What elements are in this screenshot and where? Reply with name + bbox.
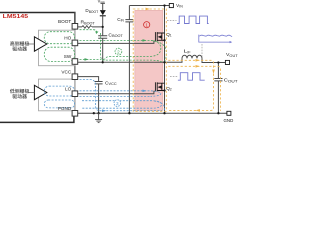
VCC wire: [78, 77, 99, 82]
diode DBOOT: [100, 10, 106, 15]
ground symbol left: [95, 113, 102, 122]
resistor RBOOT: [82, 26, 92, 29]
pin HO: [72, 40, 78, 46]
svg-text:VCC: VCC: [61, 69, 72, 74]
junction dot: CIN ground node: [128, 112, 130, 114]
pin VCC: [72, 74, 78, 80]
svg-text:CBOOT: CBOOT: [108, 32, 122, 38]
svg-text:2: 2: [117, 49, 120, 54]
green arrow on HO corridor: [143, 39, 147, 42]
green gate loop: vertical along CBOOT: [101, 33, 163, 62]
junction dot: PGND return node: [93, 112, 95, 114]
green gate loop: HO corridor segment: [80, 40, 161, 59]
green arrow on SW corridor: [85, 58, 89, 61]
svg-text:DBOOT: DBOOT: [85, 8, 98, 14]
svg-text:RBOOT: RBOOT: [81, 20, 95, 26]
pin SW: [72, 59, 78, 65]
PGND bottom wire: [78, 112, 227, 114]
blue gate loop: bottom return along PGND wire: [100, 110, 163, 112]
junction dot: Q2 drain node: [163, 89, 165, 91]
IC outline bottom edge: [0, 117, 74, 123]
Q1/Q2 drain-source column: [164, 6, 166, 114]
svg-text:1: 1: [145, 23, 148, 28]
green gate loop: in-box racetrack around SW: [44, 47, 74, 61]
IC pin column line: [74, 12, 76, 113]
junction dot: Q2 source ground node: [163, 112, 165, 114]
blue gate loop: VCC entry curve and vertical along CVCC: [80, 79, 100, 110]
svg-text:CIN: CIN: [117, 17, 124, 23]
junction dot: Q1 source node: [163, 39, 165, 41]
blue gate loop: LO corridor segment: [80, 91, 161, 97]
orange output loop lower segment: [168, 66, 220, 111]
svg-text:CVCC: CVCC: [105, 80, 117, 86]
CVCC branch wire: [98, 84, 100, 113]
svg-text:PGND: PGND: [58, 106, 72, 111]
green gate loop: BOOT segment with curl to CBOOT: [80, 30, 98, 33]
VIN terminal: [169, 4, 173, 8]
green gate loop: in-box racetrack around HO: [44, 32, 74, 44]
orange arrow top: [146, 8, 150, 11]
svg-text:VOUT: VOUT: [226, 52, 238, 58]
waveform leader 2: [170, 75, 178, 77]
CBOOT branch wire: [102, 27, 104, 62]
svg-text:3: 3: [116, 101, 119, 106]
blue gate loop: lower corridor racetrack through circle 3: [82, 101, 162, 109]
svg-text:BOOT: BOOT: [58, 19, 71, 24]
circled number 1: [144, 22, 150, 28]
svg-text:LM5145: LM5145: [3, 14, 28, 20]
SW node square waveform top: [177, 16, 209, 23]
LO wire: [78, 91, 156, 93]
low-side driver box: [39, 79, 75, 111]
orange power loop around hot loop box: [133, 9, 166, 111]
VOUT ripple waveform axis: [199, 35, 230, 43]
capacitor CBOOT: [98, 36, 107, 39]
blue arrow on bottom return: [102, 109, 106, 112]
capacitor COUT: [214, 79, 222, 81]
junction dot: COUT-VOUT node: [217, 61, 219, 63]
high-side driver box: [39, 30, 75, 65]
waveform leader 1: [167, 20, 177, 22]
BOOT wire: [78, 26, 103, 28]
circled number 2: [115, 48, 122, 55]
svg-text:SW: SW: [64, 54, 72, 59]
junction dot: VIN rail node: [163, 4, 165, 6]
VOUT terminal: [225, 60, 229, 64]
SW wire: [78, 58, 226, 62]
blue gate loop: in-box racetrack around LO: [44, 86, 74, 96]
svg-text:Q2: Q2: [166, 86, 172, 92]
orange arrows on output loop: [196, 59, 200, 62]
green gate loop: outer wrap around Q1 to SW node: [153, 41, 166, 63]
low-side driver label 低侧栅极驱动器: [10, 89, 34, 99]
VOUT ripple trace: [199, 35, 232, 36]
VCC power terminal: [101, 2, 105, 4]
capacitor CVCC: [95, 82, 103, 84]
junction dot: CBOOT-SW node: [102, 61, 104, 63]
blue gate loop: return segment below LO: [80, 95, 151, 97]
blue gate loop: outer wrap around Q2 to PGND node: [154, 101, 165, 113]
GND terminal: [227, 111, 231, 115]
junction dot: BOOT-RBOOT-DBOOT node: [102, 26, 104, 28]
transistor Q1: [155, 32, 164, 41]
circled number 3: [114, 100, 121, 107]
svg-text:COUT: COUT: [224, 78, 239, 84]
blue arrow on LO racetrack: [70, 95, 74, 98]
junction dot: COUT ground node: [217, 112, 219, 114]
pin LO: [72, 91, 78, 97]
waveform leader 3: [201, 44, 203, 58]
COUT branch wire: [217, 63, 219, 114]
inductor LF: [182, 55, 202, 58]
low-side square waveform: [178, 73, 205, 81]
junction dot: SW switch node: [163, 61, 165, 63]
svg-text:GND: GND: [224, 118, 234, 123]
capacitor CIN: [125, 20, 133, 22]
VCC diode branch wire: [102, 4, 104, 27]
blue arrow on LO corridor: [143, 90, 147, 93]
hot loop shaded box: [135, 10, 163, 110]
IC outline top edge: [0, 13, 75, 24]
junction dot: CVCC ground node: [97, 112, 99, 114]
low-side driver op-amp triangle: [34, 85, 46, 99]
svg-text:LF: LF: [184, 49, 192, 55]
svg-text:HO: HO: [64, 36, 71, 41]
CIN branch wire: [128, 6, 130, 114]
svg-text:LO: LO: [65, 86, 72, 91]
high-side driver label 高侧栅极驱动器: [10, 41, 34, 51]
VIN top rail wire: [129, 5, 169, 7]
HO wire: [78, 41, 156, 43]
transistor Q2: [155, 82, 164, 91]
pin PGND: [72, 111, 78, 117]
blue gate loop: in-box racetrack around PGND: [44, 100, 74, 108]
pin BOOT: [72, 24, 78, 30]
svg-text:Q1: Q1: [166, 32, 172, 38]
green gate loop: SW corridor segment: [80, 58, 102, 60]
orange output loop upper segment: [168, 60, 213, 110]
high-side driver op-amp triangle: [34, 37, 46, 51]
svg-text:VIN: VIN: [176, 3, 183, 9]
